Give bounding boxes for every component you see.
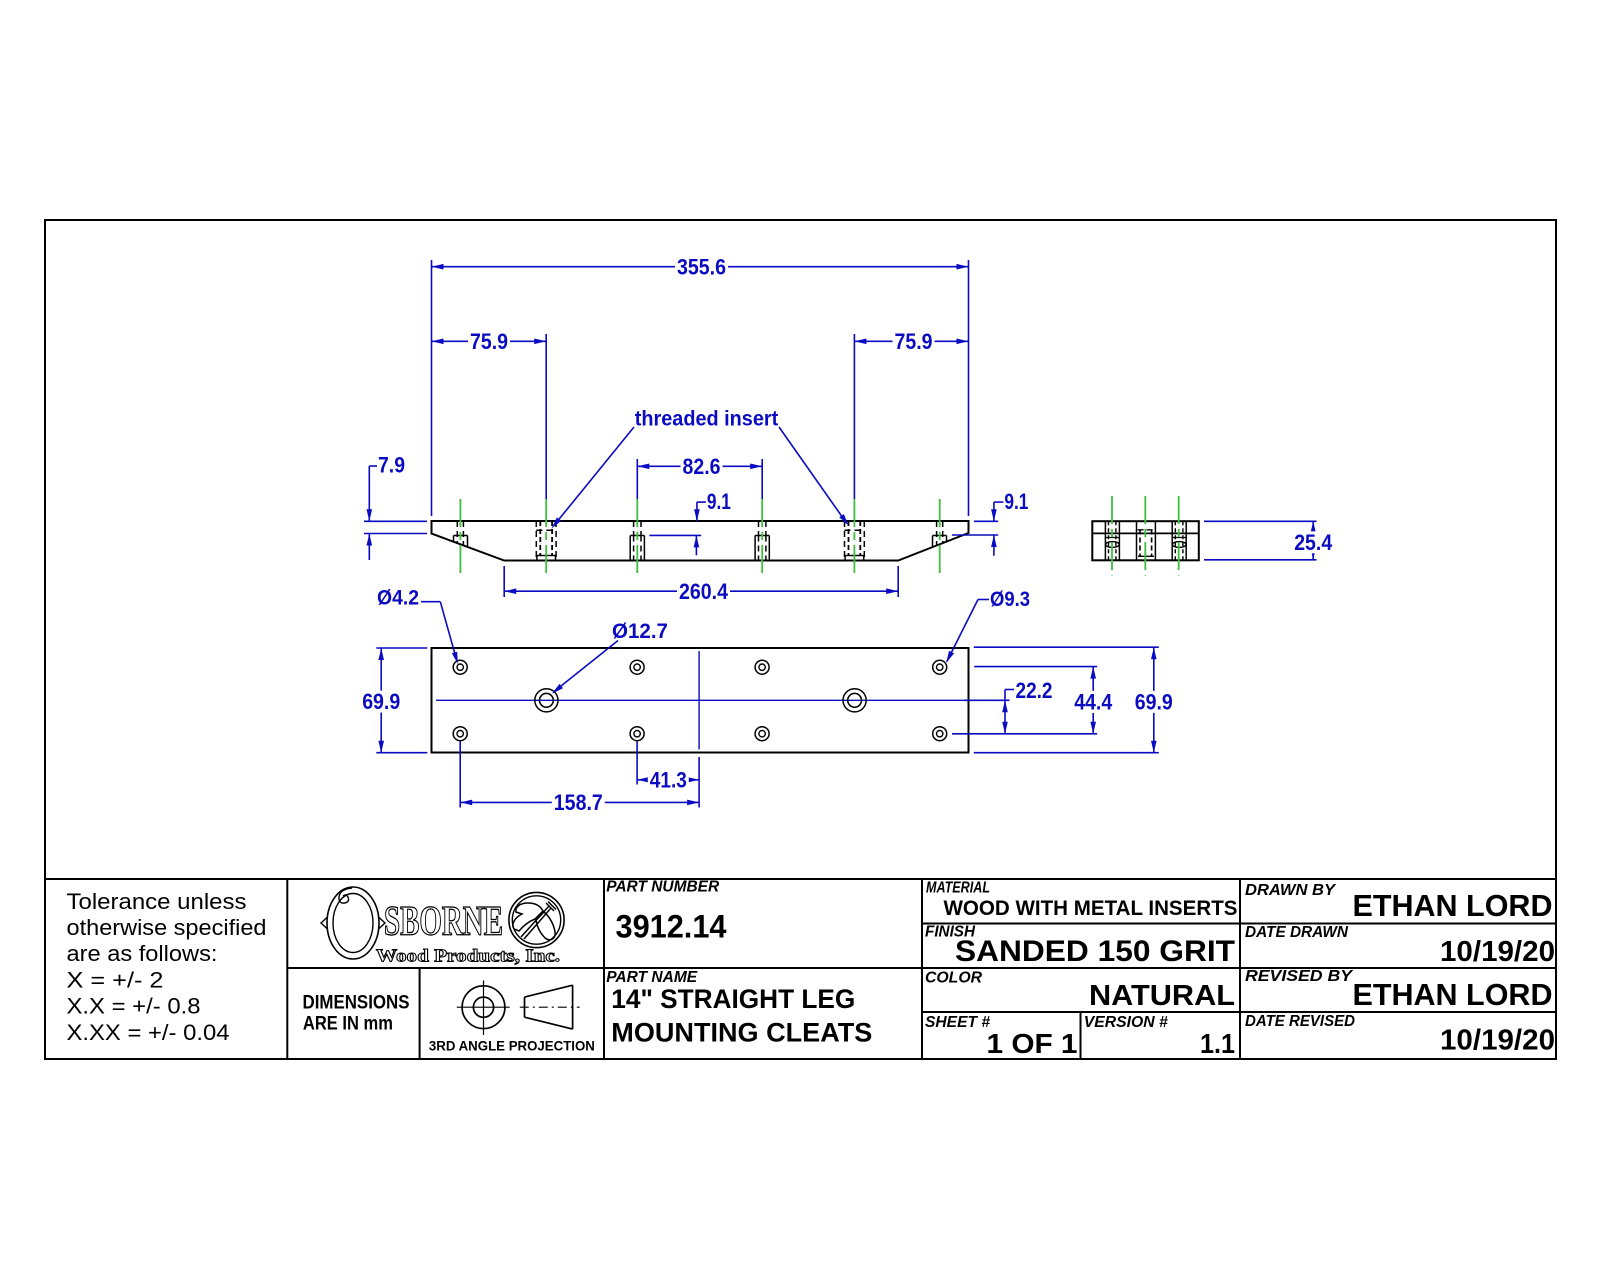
svg-text:X = +/- 2: X = +/- 2	[67, 968, 164, 993]
svg-text:69.9: 69.9	[1135, 690, 1173, 715]
svg-text:9.1: 9.1	[707, 489, 731, 514]
svg-text:threaded insert: threaded insert	[635, 408, 779, 431]
svg-text:1 OF 1: 1 OF 1	[987, 1028, 1078, 1059]
dim 25.4	[1204, 520, 1317, 522]
dim 44.4	[974, 666, 1097, 668]
end view outline	[1092, 521, 1199, 560]
dim 260.4	[504, 590, 898, 592]
svg-text:DATE REVISED: DATE REVISED	[1245, 1013, 1355, 1030]
dim 69.9 left	[376, 647, 427, 649]
svg-text:COLOR: COLOR	[925, 970, 982, 987]
dim 82.6	[637, 465, 762, 467]
svg-text:SANDED 150 GRIT: SANDED 150 GRIT	[955, 935, 1235, 968]
svg-text:DRAWN BY: DRAWN BY	[1245, 882, 1336, 899]
middle insert left (side view)	[633, 521, 635, 536]
svg-text:otherwise specified: otherwise specified	[67, 915, 267, 940]
svg-text:DATE DRAWN: DATE DRAWN	[1245, 924, 1348, 941]
threaded insert left (side view)	[535, 521, 537, 561]
svg-text:Tolerance unless: Tolerance unless	[67, 889, 247, 914]
dim 158.7	[459, 742, 461, 808]
svg-text:69.9: 69.9	[362, 689, 400, 714]
right screw hole hidden lines	[936, 521, 938, 546]
svg-text:WOOD WITH METAL INSERTS: WOOD WITH METAL INSERTS	[944, 897, 1238, 920]
dim 75.9 left	[432, 340, 547, 342]
left screw hole hidden lines	[456, 521, 458, 543]
svg-text:75.9: 75.9	[470, 329, 508, 354]
svg-text:Ø12.7: Ø12.7	[612, 620, 668, 643]
svg-text:9.1: 9.1	[1004, 489, 1028, 514]
end view hole column right	[1171, 521, 1173, 560]
svg-text:Ø9.3: Ø9.3	[990, 588, 1030, 611]
svg-text:MOUNTING CLEATS: MOUNTING CLEATS	[611, 1018, 872, 1048]
dim 22.2	[964, 699, 1010, 701]
side view outline	[432, 521, 969, 561]
threaded insert right (side view)	[844, 521, 846, 561]
svg-text:SHEET #: SHEET #	[925, 1014, 990, 1031]
svg-text:REVISED BY: REVISED BY	[1245, 968, 1353, 985]
svg-text:3RD ANGLE PROJECTION: 3RD ANGLE PROJECTION	[429, 1039, 595, 1054]
Osborne Wood Products logo	[321, 887, 385, 959]
svg-text:14" STRAIGHT LEG: 14" STRAIGHT LEG	[611, 984, 855, 1014]
extension lines	[431, 260, 433, 516]
plan centerline horizontal	[436, 699, 964, 701]
plan view outline	[432, 648, 969, 753]
svg-text:Ø4.2: Ø4.2	[377, 587, 419, 610]
plan holes bottom row	[453, 727, 467, 741]
svg-text:Wood Products, Inc.: Wood Products, Inc.	[376, 946, 560, 966]
svg-text:ARE IN mm: ARE IN mm	[303, 1013, 393, 1035]
title block grid	[45, 878, 1556, 880]
svg-text:NATURAL: NATURAL	[1089, 980, 1235, 1012]
svg-text:260.4: 260.4	[679, 579, 729, 604]
svg-text:41.3: 41.3	[650, 767, 687, 792]
dim 75.9 right	[854, 340, 968, 342]
plan holes top row	[453, 660, 467, 674]
svg-text:82.6: 82.6	[683, 454, 721, 479]
end view centerlines	[1111, 496, 1113, 576]
svg-text:VERSION #: VERSION #	[1084, 1014, 1168, 1031]
plan big holes	[535, 689, 558, 712]
svg-text:PART NUMBER: PART NUMBER	[606, 879, 719, 896]
svg-text:10/19/20: 10/19/20	[1440, 936, 1555, 968]
svg-text:ETHAN LORD: ETHAN LORD	[1353, 977, 1553, 1012]
svg-text:DIMENSIONS: DIMENSIONS	[303, 992, 410, 1014]
svg-text:1.1: 1.1	[1200, 1028, 1235, 1059]
end view hole column left	[1104, 521, 1106, 560]
third angle projection symbol	[462, 986, 505, 1029]
dim 7.9	[364, 520, 427, 522]
svg-text:158.7: 158.7	[554, 790, 603, 815]
svg-text:355.6: 355.6	[677, 254, 726, 279]
svg-text:ETHAN LORD: ETHAN LORD	[1353, 888, 1553, 923]
svg-text:MATERIAL: MATERIAL	[926, 880, 990, 897]
svg-text:X.XX = +/- 0.04: X.XX = +/- 0.04	[67, 1020, 230, 1045]
border frame	[45, 220, 1556, 1059]
centerlines (side view)	[459, 499, 461, 576]
end view hole column middle	[1136, 521, 1138, 560]
svg-text:44.4: 44.4	[1074, 690, 1113, 715]
plan centerline vertical	[698, 651, 700, 750]
svg-text:10/19/20: 10/19/20	[1440, 1025, 1555, 1057]
svg-text:are as follows:: are as follows:	[67, 941, 218, 966]
dim 69.9 right	[974, 646, 1159, 648]
svg-text:X.X = +/- 0.8: X.X = +/- 0.8	[67, 994, 201, 1019]
svg-text:75.9: 75.9	[895, 329, 933, 354]
middle insert right (side view)	[758, 521, 760, 536]
dim 355.6	[432, 266, 969, 268]
dim 41.3	[636, 742, 638, 785]
svg-text:SBORNE: SBORNE	[384, 899, 503, 945]
svg-text:3912.14: 3912.14	[616, 909, 727, 945]
svg-text:22.2: 22.2	[1016, 678, 1053, 703]
svg-text:7.9: 7.9	[378, 453, 405, 478]
svg-text:25.4: 25.4	[1294, 530, 1333, 555]
